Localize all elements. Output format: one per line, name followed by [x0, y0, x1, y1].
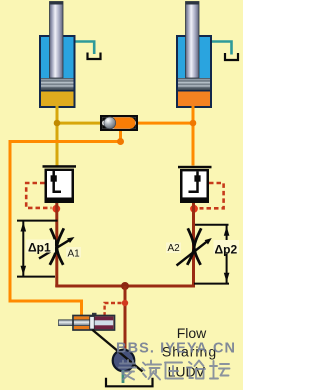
drain line T1: [76, 42, 95, 55]
pilot line dashed V1: [26, 183, 51, 208]
pump suction line: [122, 370, 125, 383]
tank T3: [106, 378, 153, 387]
bracket dp2: [194, 225, 229, 284]
cylinder CYL2 piston rod: [186, 2, 200, 79]
pilot line dashed pump tap: [105, 303, 122, 315]
tank T2: [225, 53, 238, 60]
wire gold horizontal to shuttle: [57, 122, 100, 125]
orifice A2 symbol: [177, 228, 212, 265]
wire orange vertical from CYL2: [192, 106, 195, 166]
cylinder CYL2 body: [176, 35, 212, 108]
svg-text:A2: A2: [168, 243, 181, 254]
label dp1: [26, 240, 55, 255]
compensator valve V1 poppet symbol: [51, 171, 61, 192]
title text: [162, 325, 217, 380]
shuttle valve SV1: [100, 115, 138, 131]
svg-text:Flow: Flow: [177, 325, 207, 341]
wire supply vertical to pump: [124, 286, 127, 350]
node orange junction: [190, 120, 197, 127]
bracket dp1: [17, 221, 58, 277]
swashplate link: [92, 330, 142, 372]
wire LS drop to control cylinder: [80, 300, 83, 317]
cylinder CYL1 piston rod: [50, 2, 64, 79]
svg-text:A1: A1: [68, 248, 81, 259]
label A2: [166, 243, 181, 255]
wire LS bottom horizontal: [9, 300, 84, 303]
tank T1: [88, 53, 101, 60]
compensator valve V1 body: [45, 169, 75, 203]
node pilot tap: [122, 300, 128, 306]
wire shuttle output: [119, 131, 122, 142]
wire maroon vertical right: [192, 203, 195, 287]
wire LS horizontal: [9, 140, 123, 143]
wire maroon vertical left: [55, 203, 58, 287]
control cylinder CC1: [59, 313, 115, 330]
pilot line dashed V2: [200, 183, 224, 208]
node supply junction: [121, 282, 129, 290]
node gold junction: [54, 120, 61, 127]
wire supply horizontal: [55, 285, 195, 288]
node pilot junction V1: [52, 205, 60, 213]
wire orange horizontal to shuttle: [138, 122, 193, 125]
svg-text:Δp1: Δp1: [28, 240, 51, 254]
svg-text:BBS. IYEYA.CN: BBS. IYEYA.CN: [116, 341, 236, 357]
cylinder CYL1 body: [39, 35, 76, 108]
pump P1: [113, 350, 135, 372]
node LS junction: [117, 138, 124, 145]
svg-text:Δp2: Δp2: [215, 242, 238, 256]
compensator valve V2 top bar: [178, 166, 212, 169]
compensator valve V2 poppet symbol: [189, 171, 201, 191]
compensator valve V2 body: [180, 169, 209, 203]
wire gold vertical from CYL1: [56, 106, 59, 166]
label A1: [66, 247, 81, 259]
node pilot junction V2: [190, 205, 198, 213]
drain line T2: [212, 42, 232, 55]
watermark line 2 (CJK strokes): [119, 360, 230, 380]
wire LS vertical left: [9, 140, 12, 303]
label dp2: [214, 240, 240, 256]
compensator valve V1 top bar: [43, 165, 77, 168]
orifice A1 symbol: [39, 228, 75, 265]
